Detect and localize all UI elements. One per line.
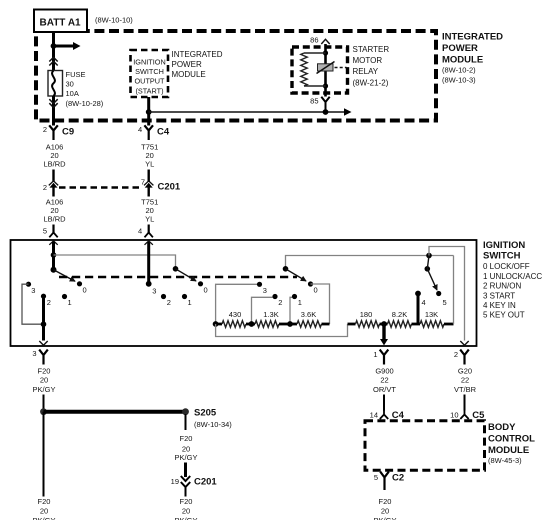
starter motor relay dashed box [292,47,348,93]
wire below C201 [185,488,187,497]
resistor 3.6K [290,310,330,327]
svg-text:2: 2 [47,298,51,307]
wire S205 down [185,414,187,430]
wire label A106 20 LB/RD (lower) [43,198,66,224]
svg-text:INTEGRATED: INTEGRATED [172,50,223,59]
svg-text:BATT A1: BATT A1 [40,18,82,29]
connector C201 pin 19 [171,476,218,488]
svg-text:IGNITION: IGNITION [133,58,165,67]
node ladder left end [213,321,219,327]
svg-text:180: 180 [360,310,373,319]
svg-text:POWER: POWER [442,43,478,54]
relay pin 86 chevron [310,36,330,45]
svg-text:RELAY: RELAY [353,67,379,76]
wire start signal to starter relay [149,111,345,113]
connector C5 pin 10 [450,409,485,422]
connector C201 left half pin 2 [43,181,58,197]
connector chevrons below fuse [49,99,57,107]
pin 2 exit chevron [460,341,468,345]
connector C4 pin 4 [138,125,170,140]
wire F20 to splice [43,395,45,412]
svg-text:1: 1 [188,298,192,307]
label starter motor relay [353,45,390,88]
wire label A106 20 LB/RD (upper) [43,143,66,169]
label FUSE 30 10A (8W-10-28) [66,70,104,108]
svg-text:YL: YL [145,160,154,169]
ignition switch box [11,240,477,346]
label integrated power module (right) [442,32,503,85]
svg-text:LB/RD: LB/RD [43,160,66,169]
wire 13K to rail riser [453,256,455,325]
svg-text:10: 10 [450,410,458,419]
wire rail tap to key pivot [427,256,429,269]
svg-text:5: 5 [43,227,47,236]
svg-text:8.2K: 8.2K [392,310,407,319]
svg-text:0 LOCK/OFF: 0 LOCK/OFF [483,262,530,271]
svg-text:2: 2 [167,298,171,307]
key switch contact 4 [415,291,426,307]
svg-text:SWITCH: SWITCH [483,251,521,262]
svg-text:PK/GY: PK/GY [374,516,397,520]
svg-text:PK/GY: PK/GY [175,453,198,462]
mechanical linkage dashed [59,276,297,278]
svg-text:C4: C4 [157,126,170,137]
node switch 1 pivot [51,267,57,273]
wire pin 5 feed [52,242,55,271]
svg-text:86: 86 [310,36,318,45]
switch 2 contact 0 [198,281,208,294]
switch 2 contact 1 [182,294,192,307]
node ladder junction 430/1.3K [249,321,255,327]
pin 5 entry chevron [49,241,57,245]
wire contact 2 to pin 3 exit [42,296,45,340]
pin 1 exit arrow [380,339,388,345]
svg-text:F20: F20 [379,497,392,506]
label body control module [488,422,535,465]
switch 1 contact 2 [41,294,51,307]
svg-text:S205: S205 [194,408,217,419]
node relay 85 junction [323,109,329,115]
svg-text:MODULE: MODULE [488,445,529,456]
svg-text:OUTPUT: OUTPUT [135,77,166,86]
svg-text:PK/GY: PK/GY [33,385,56,394]
resistor 1.3K [252,310,291,327]
switch 1 contact 3 [26,282,36,295]
svg-text:1: 1 [298,298,302,307]
fuse 30 10A symbol [48,71,63,97]
relay pin 85 fork [310,97,330,113]
switch 1 contact 0 [77,281,87,294]
wire fuse to connector C9 [52,96,55,126]
wire contact 3 to output [22,284,44,324]
svg-text:3.6K: 3.6K [301,310,316,319]
svg-text:10A: 10A [66,89,79,98]
wire contact 2 to ladder junction [252,297,273,324]
wire label T751 20 YL (lower) [141,198,158,224]
ladder contact 2 [272,294,282,307]
svg-text:5: 5 [443,298,447,307]
svg-text:1 UNLOCK/ACC: 1 UNLOCK/ACC [483,272,542,281]
key switch arm [427,269,437,290]
wire splice bus to S205 [44,410,186,414]
switch 3 contact 0 [308,281,318,294]
connector C9 pin 2 [43,125,74,140]
connector C4 pin 14 [370,409,405,422]
svg-text:FUSE: FUSE [66,70,86,79]
wire branch arrow to other circuits [54,45,74,48]
node key switch pivot [425,266,431,272]
svg-text:(8W-21-2): (8W-21-2) [353,79,389,88]
svg-text:C9: C9 [62,126,74,137]
node switch 2 pivot [173,266,179,272]
wire pin 4 start feed [147,242,150,284]
wire ladder contact 3 feed [216,284,260,324]
node relay coil bottom [323,83,328,88]
resistor 13K [420,310,454,327]
node ladder junction 1.3K/3.6K [287,321,293,327]
node battery feed junction [51,43,57,49]
svg-text:2: 2 [454,350,458,359]
svg-text:22: 22 [461,376,469,385]
connector pin 2 fork below switch [454,350,469,365]
connector C2 pin 5 [374,472,404,490]
wire to C201 pin 19 [184,463,187,478]
wire label F20 20 PK/GY (left upper) [33,367,56,394]
svg-text:MODULE: MODULE [172,70,206,79]
svg-text:20: 20 [182,444,190,453]
wire battery feed down to fuse [52,32,55,71]
svg-text:14: 14 [370,410,378,419]
svg-text:20: 20 [381,506,389,515]
svg-text:LB/RD: LB/RD [43,215,66,224]
svg-text:(8W-10-2): (8W-10-2) [442,65,476,74]
svg-text:0: 0 [204,285,208,294]
svg-text:(8W-10-34): (8W-10-34) [194,420,232,429]
svg-text:(8W-10-3): (8W-10-3) [442,76,476,85]
svg-text:BODY: BODY [488,422,516,433]
battery feed box BATT A1 [34,10,87,33]
wire G20 to BCM [464,395,466,411]
splice S205 [182,408,232,429]
svg-text:VT/BR: VT/BR [454,385,477,394]
svg-text:YL: YL [145,215,154,224]
wire pin 1 output [382,324,385,339]
integrated power module dashed box [36,31,436,121]
wire G900 to BCM [383,395,385,411]
connector C201 right half pin 7 [141,177,181,196]
wire key switch output loop [429,247,465,341]
svg-text:INTEGRATED: INTEGRATED [442,32,503,43]
svg-text:IGNITION: IGNITION [483,240,525,251]
svg-text:F20: F20 [180,497,193,506]
svg-text:G900: G900 [375,367,393,376]
harness dashed line at C201 [59,186,143,189]
resistor 8.2K [384,310,420,327]
svg-text:20: 20 [40,506,48,515]
key switch contact 5 [436,291,447,307]
wire label F20 20 PK/GY (below C201) [175,497,198,520]
wire ladder bottom return [216,324,348,337]
switch 3 arm [286,269,307,281]
svg-text:20: 20 [182,506,190,515]
body control module dashed box [365,421,485,471]
svg-text:5: 5 [374,473,378,482]
svg-text:(START): (START) [135,86,163,95]
svg-text:PK/GY: PK/GY [33,516,56,520]
wire relay 86 to 85 through box [324,44,327,97]
label ignition switch output (start) [133,58,165,96]
svg-text:3 START: 3 START [483,291,515,300]
svg-text:PK/GY: PK/GY [175,516,198,520]
connector chevrons above fuse [49,57,57,65]
svg-text:3: 3 [152,287,156,296]
wire rail to switch 2 pivot [54,255,176,269]
svg-text:30: 30 [66,80,74,89]
switch 2 contact 3 [146,281,157,296]
ignition switch output (start) dashed box [131,50,169,97]
node key switch rail tap [426,253,432,259]
wire contact 0 to ladder [311,284,330,324]
svg-text:STARTER: STARTER [353,45,390,54]
svg-text:2: 2 [43,183,47,192]
wire T751 into ignition switch pin 4 [138,225,153,238]
svg-text:2: 2 [43,125,47,134]
wire T751 segment to C201 [147,170,149,182]
svg-text:19: 19 [171,477,179,486]
relay contact [317,62,347,74]
svg-text:SWITCH: SWITCH [135,67,164,76]
wire A106 into ignition switch pin 5 [43,225,58,238]
node pin 1 junction [381,321,387,327]
node start signal junction [146,109,152,115]
svg-text:0: 0 [83,285,87,294]
svg-text:5 KEY OUT: 5 KEY OUT [483,310,525,319]
switch 1 arm [54,270,76,281]
label integrated power module (inner) [172,50,223,79]
svg-text:C201: C201 [194,477,217,488]
svg-text:OR/VT: OR/VT [373,385,396,394]
svg-text:C2: C2 [392,473,404,484]
wire label T751 20 YL (upper) [141,143,158,169]
resistor 180 [348,310,385,327]
svg-text:4: 4 [138,227,142,236]
svg-text:(8W-10-28): (8W-10-28) [66,99,104,108]
connector pin 1 fork below switch [373,350,388,365]
svg-text:3: 3 [263,286,267,295]
pin 3 exit chevron [39,341,47,345]
svg-text:22: 22 [380,376,388,385]
label ignition switch [483,240,542,320]
svg-text:CONTROL: CONTROL [488,433,535,444]
svg-text:3: 3 [31,286,35,295]
svg-text:13K: 13K [425,310,438,319]
svg-text:G20: G20 [458,367,472,376]
pin 4 entry chevron [145,241,153,245]
node splice junction [40,408,47,415]
svg-text:MOTOR: MOTOR [353,56,383,65]
svg-text:7: 7 [141,177,145,186]
wire label G900 22 OR/VT [373,367,396,394]
relay coil resistor [301,53,326,86]
svg-text:1: 1 [68,298,72,307]
wire label F20 20 PK/GY (S205 branch) [175,434,198,462]
ladder contact 1 [292,294,302,307]
switch 2 contact 2 [161,294,171,307]
svg-text:4 KEY IN: 4 KEY IN [483,301,516,310]
svg-text:20: 20 [40,376,48,385]
wire label F20 20 PK/GY (left bottom) [33,497,56,520]
wire below left splice [43,412,45,497]
resistor 430 [216,310,252,327]
svg-text:(8W-10-10): (8W-10-10) [95,16,133,25]
svg-text:MODULE: MODULE [442,55,483,66]
wire contact 4 to ladder [417,294,420,325]
svg-text:C201: C201 [158,182,181,193]
svg-text:(8W-45-3): (8W-45-3) [488,456,522,465]
svg-text:F20: F20 [180,434,193,443]
svg-text:3: 3 [32,349,36,358]
svg-text:0: 0 [314,286,318,295]
node pin 3 junction [41,321,47,327]
svg-text:430: 430 [229,310,242,319]
svg-text:1: 1 [373,350,377,359]
node pin5 rail tap [51,252,57,258]
switch 2 arm [176,269,197,281]
wire label F20 20 PK/GY (BCM) [374,497,397,520]
node switch 3 pivot [283,266,289,272]
svg-text:F20: F20 [38,367,51,376]
svg-text:4: 4 [422,298,426,307]
wire label G20 22 VT/BR [454,367,477,394]
svg-text:POWER: POWER [172,60,202,69]
ladder contact 3 [257,282,267,295]
svg-text:4: 4 [138,125,142,134]
svg-text:85: 85 [310,97,318,106]
wire rail to switch 3 pivot [286,256,454,269]
switch 1 contact 1 [62,294,72,307]
connector pin 3 fork below switch [32,349,47,365]
svg-text:2 RUN/ON: 2 RUN/ON [483,282,521,291]
node relay coil top [323,50,328,55]
wire A106 segment to C201 [52,170,54,182]
svg-text:F20: F20 [38,497,51,506]
wire contact 1 to ladder junction [290,297,292,324]
svg-text:2: 2 [278,298,282,307]
wire ignition switch output down to C4 [147,97,150,126]
svg-text:1.3K: 1.3K [263,310,278,319]
